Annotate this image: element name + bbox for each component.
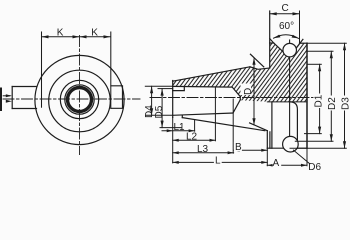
taper outer line (bottom) — [182, 118, 264, 131]
D1 dimension — [307, 63, 321, 65]
horizontal centerline — [3, 98, 140, 100]
A label white box — [273, 158, 282, 167]
V-groove right wall — [289, 39, 303, 57]
V-groove left wall — [270, 39, 289, 58]
D5 dimension — [158, 88, 173, 90]
L3 dimension — [232, 99, 234, 153]
D2 label white box — [328, 96, 336, 111]
vertical centerline — [79, 36, 81, 155]
neck top line — [250, 67, 270, 70]
flange top right — [300, 42, 308, 44]
svg-text:A: A — [273, 158, 280, 169]
svg-text:D1: D1 — [313, 94, 324, 107]
bore cone tip — [239, 97, 241, 100]
flange right face — [306, 43, 308, 148]
svg-text:60°: 60° — [279, 21, 294, 32]
K arrowheads — [42, 35, 111, 38]
right tab — [111, 86, 123, 109]
hatch: solid mid body — [232, 67, 270, 102]
L label white box — [214, 155, 222, 164]
hatch: taper wall band — [173, 70, 233, 87]
B label white box — [234, 142, 242, 151]
ball pocket right wall with rounded corner — [290, 102, 297, 148]
B dimension — [234, 149, 268, 151]
ball pocket left wall — [271, 102, 273, 148]
svg-text:C: C — [282, 3, 289, 14]
counterbore circle — [65, 85, 94, 114]
L2 dimension — [214, 87, 216, 141]
bore bottom line — [173, 113, 233, 115]
left tab face — [11, 87, 13, 109]
D2 dimension — [307, 50, 333, 52]
axis centerline — [150, 97, 313, 99]
flange left face upper — [269, 11, 271, 68]
D label white box — [241, 84, 252, 96]
flange bottom — [267, 147, 307, 149]
D dimension line — [253, 59, 255, 124]
svg-text:D3: D3 — [340, 97, 350, 110]
left end face — [172, 81, 174, 118]
groove center line — [289, 40, 291, 137]
taper outer line (top) — [173, 67, 250, 81]
L1 dimension — [194, 120, 196, 132]
svg-text:D2: D2 — [327, 97, 338, 110]
bore end cone upper — [232, 87, 240, 97]
lower groove floor line — [250, 123, 268, 131]
hatch: flange block — [270, 43, 307, 102]
svg-text:K: K — [91, 28, 98, 39]
svg-text:L2: L2 — [186, 132, 198, 143]
flange top left — [270, 42, 274, 44]
threaded bore (thick ring) — [68, 88, 92, 112]
taper start step — [181, 115, 183, 117]
bore end cone lower — [233, 100, 240, 113]
K dimension extension line right (merges with right tab left edge) — [110, 32, 112, 108]
D1 label white box — [314, 94, 322, 109]
svg-text:L1: L1 — [174, 122, 186, 133]
svg-text:L3: L3 — [197, 144, 209, 155]
hatch boundary line in flange — [267, 101, 307, 103]
K dimension extension line left — [41, 32, 43, 107]
hub circle — [60, 80, 98, 118]
60 degree arc — [274, 35, 299, 39]
svg-text:L: L — [215, 155, 221, 166]
svg-text:D5: D5 — [154, 105, 165, 118]
K dimension line — [42, 36, 111, 38]
svg-text:B: B — [235, 142, 242, 153]
D3 dimension — [307, 42, 346, 44]
svg-text:D: D — [243, 88, 254, 95]
C dimension ext right — [299, 11, 301, 43]
left tab top edge — [12, 86, 36, 88]
ball bottom (white fill) — [283, 136, 299, 152]
D6 leader — [293, 150, 309, 164]
D4 dimension — [145, 85, 172, 87]
L dimension — [172, 117, 174, 162]
ball top (white fill) — [283, 43, 297, 57]
svg-text:D6: D6 — [308, 162, 321, 173]
D3 label white box — [341, 96, 349, 111]
svg-text:K: K — [57, 28, 64, 39]
flange left face lower — [267, 131, 270, 149]
left tab bottom edge — [12, 108, 36, 110]
boss circle — [49, 70, 111, 132]
upper groove slant line — [250, 54, 263, 67]
small edge dimension (left margin) — [0, 89, 2, 111]
outer circle — [35, 55, 124, 144]
C dimension line — [270, 13, 300, 15]
bore top line — [173, 85, 233, 88]
A dimension — [267, 148, 307, 166]
bore mouth chamfer — [173, 87, 185, 91]
